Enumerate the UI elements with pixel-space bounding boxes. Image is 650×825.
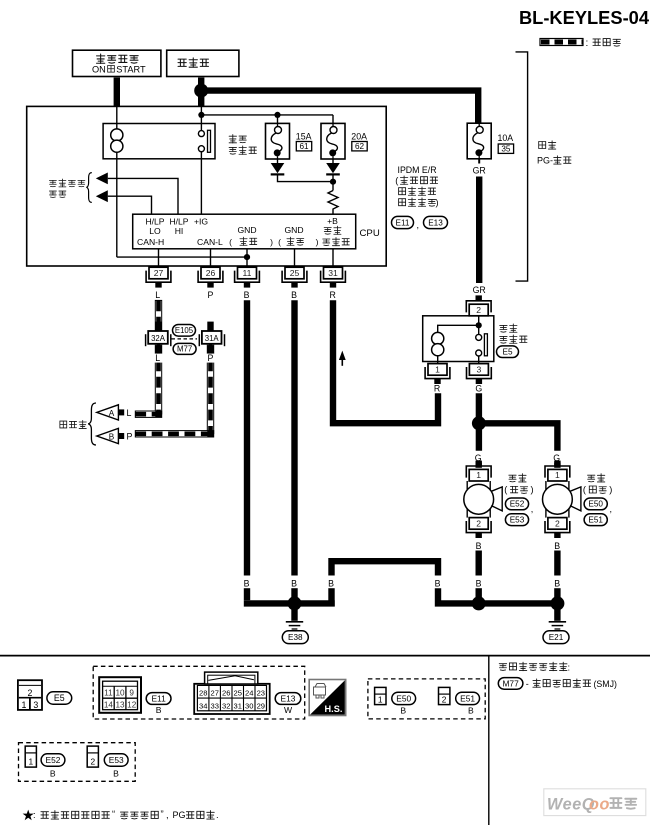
horn relay contact bar [484,334,487,356]
wire B pin 11 (thick) [244,300,250,575]
connector 31A [199,331,224,346]
svg-text:B: B [554,541,560,551]
oval M77 legend ref [498,678,523,690]
svg-text:L: L [127,408,132,418]
svg-text:25: 25 [234,689,242,698]
separator line above legend [0,655,650,657]
battery box (xu dian chi) [167,50,239,76]
arrow to front headlamp system (upper) [96,173,108,185]
connector E5 face [18,680,42,710]
svg-text:(: ( [278,237,281,247]
svg-text:B: B [291,290,297,300]
svg-text:15A: 15A [296,131,312,141]
svg-text:12: 12 [127,701,137,710]
label horn high (la ba gao yin) [509,474,526,482]
svg-text:WeeQ: WeeQ [547,796,595,814]
wire battery junction down into IPDM (thick) [198,91,204,107]
label see PG power (can jian PG dian yuan) [539,141,556,149]
svg-text:2: 2 [442,695,447,705]
pin 2 horn high [466,518,491,538]
svg-text:): ) [531,485,534,495]
svg-text:13: 13 [115,701,125,710]
label to front headlamp system (zhi qian da deng xi tong) [49,179,85,187]
svg-text:B: B [400,705,406,715]
svg-text:1: 1 [435,365,440,375]
wire crossover bridge (thick) [332,561,439,575]
svg-text:): ) [270,237,273,247]
svg-text:B: B [328,578,334,588]
oval E51 ref [584,514,607,526]
wire GND power stub [246,249,248,268]
svg-text:GR: GR [473,285,486,295]
oval E52 ref [505,498,528,510]
wire battery feed to 10A fuse (thick) [205,91,478,123]
svg-text:61: 61 [299,142,309,151]
svg-text:HI: HI [175,226,184,236]
horn low body [543,481,581,518]
corner patch L data wire [155,411,161,417]
svg-text:31A: 31A [205,334,220,343]
brace previous page group [88,403,96,445]
svg-text:1: 1 [476,470,481,480]
pin 1 horn low [545,461,570,481]
svg-text:2: 2 [27,688,32,698]
svg-text:B: B [244,290,250,300]
wire crossover lower to E21 rail (thick) [438,588,557,603]
svg-text:R: R [434,384,440,394]
label previous page (shang yi ye) [60,420,86,428]
wire fuse feed rail horizontal [201,114,333,116]
svg-text:IPDM E/R: IPDM E/R [398,165,437,175]
svg-text:E5: E5 [502,347,512,356]
svg-text:P: P [208,290,214,300]
node E21 ground splice [550,596,564,610]
svg-text:(: ( [229,237,232,247]
wire G relay pin3 down (thick) [476,393,482,451]
svg-text:24: 24 [245,689,253,698]
svg-text:L: L [155,290,160,300]
svg-text:oo: oo [589,796,610,814]
dashed group box E50/E51 [368,679,485,719]
wire CAN-H stub [158,249,160,268]
svg-text:START: START [116,65,146,75]
svg-text:P: P [208,353,214,363]
svg-text:CAN-L: CAN-L [197,237,223,247]
svg-text:11: 11 [243,268,252,278]
svg-text:9: 9 [129,689,134,698]
svg-text:3: 3 [33,700,38,710]
svg-text:2: 2 [476,305,481,315]
wire R pin31 to horn relay pin1 (thick) [333,300,438,423]
svg-text:B: B [156,705,162,715]
wire horn relay contact to pin 3 [478,356,480,364]
wire 20A fuse to diode [332,159,334,163]
wire diode D2 to resistor junction [332,176,334,191]
svg-text:B: B [554,578,560,588]
wire ignition switch lead into relay coil [116,106,118,129]
svg-text:62: 62 [355,142,365,151]
pin 27 CAN-H [146,267,171,287]
horn relay coil [432,332,444,344]
svg-text:28: 28 [199,689,207,698]
svg-text:”: ” [161,808,164,819]
wire horn relay coil link [438,325,479,332]
ignition relay coil [111,129,123,141]
svg-text:E21: E21 [549,633,564,642]
svg-text:E51: E51 [460,693,475,703]
svg-text:20A: 20A [351,131,367,141]
svg-text:B: B [476,541,482,551]
label 62 box [352,142,367,152]
svg-text:.: . [216,809,219,820]
svg-text:,: , [531,504,534,514]
svg-text:3: 3 [477,365,482,375]
ignition switch box ON/START [73,50,161,76]
fuse 15A no.61 [266,123,290,159]
svg-text:+B: +B [327,216,338,226]
data wire P 31A to page arrow B [207,344,213,434]
oval E5 ref [497,346,519,358]
wire B high horn upper segment (thick) [476,551,482,576]
svg-text:“: “ [112,808,115,819]
oval E53 ref [505,514,528,526]
wire headlamp upper to H/LP HI pin [108,178,178,214]
diode D1 under 15A fuse [271,163,285,176]
watermark weiku characters [610,798,636,809]
svg-text:E11: E11 [396,218,410,227]
node horn relay coil junction [476,322,482,328]
svg-text:(SMJ): (SMJ) [594,679,618,689]
svg-text:CPU: CPU [360,228,380,239]
bracket see PG-power section [516,52,528,281]
svg-text:23: 23 [257,689,265,698]
label see following content (qing can jian xia lie nei rong) [499,662,567,671]
data wire L pin27 to 32A [155,300,161,330]
oval E11 ref [392,216,414,228]
wire crossover lower stub (thick) [328,588,334,606]
ground symbol E21 [549,622,566,629]
svg-text:A: A [109,409,115,418]
oval M77 ref [173,343,196,354]
wire ground rail horizontal (coil to GND pin) [117,256,247,258]
svg-text::: : [33,809,36,820]
svg-text:-: - [526,679,529,689]
svg-text:,: , [610,504,613,514]
label horn low (la ba di yin) [588,474,605,482]
svg-text:BL-KEYLES-04: BL-KEYLES-04 [519,7,650,28]
watermark WeeQoo [544,789,646,816]
node GND junction [244,254,250,260]
svg-text:1: 1 [28,757,33,767]
pin 2 horn low [545,518,570,538]
svg-text:26: 26 [206,268,216,278]
svg-text:1: 1 [378,695,383,705]
dashed SMJ separator [172,338,198,340]
svg-text:R: R [330,290,336,300]
legend data-line sample [540,39,583,46]
pin 11 GND power [235,267,260,287]
svg-text:G: G [475,384,482,394]
oval E52 legend ref [41,754,65,766]
pin 26 CAN-L [198,267,223,287]
arrow direction marker on R wire [339,351,346,360]
ignition relay contact circles [198,131,204,137]
label 35 box [498,144,513,154]
oval E51 legend ref [456,692,480,704]
horn relay contact circles [476,334,482,340]
connector E11 face [99,677,141,713]
label horn relay (la ba ji dian qi) [500,324,517,332]
svg-text:30: 30 [245,701,253,710]
svg-text:E105: E105 [175,326,194,335]
wire horn relay coil to pin 1 [437,356,439,364]
wire E21 ground stub [554,603,560,620]
svg-text:E51: E51 [588,515,603,524]
node battery junction [194,84,208,98]
H.S. harness icon [309,680,346,716]
svg-text:14: 14 [104,701,114,710]
oval E13 ref [424,216,448,228]
divider vertical legend [488,656,490,825]
svg-text:33: 33 [210,701,218,710]
svg-text:10: 10 [115,689,125,698]
svg-text:ON: ON [92,65,106,75]
svg-text:H.S.: H.S. [325,704,343,714]
pin 3 horn relay [467,364,492,384]
horn relay box [423,316,494,362]
wire relay coil to ground rail [116,152,118,257]
wire headlamp lower to H/LP LO pin [108,196,152,214]
svg-text:,: , [166,809,169,820]
svg-text:27: 27 [154,268,164,278]
CPU box inside IPDM [133,214,356,249]
svg-text:26: 26 [222,689,230,698]
oval E53 legend ref [104,754,128,766]
svg-text:11: 11 [104,689,113,698]
label battery text [178,58,208,67]
svg-text:GND: GND [284,225,303,235]
svg-text:B: B [468,705,474,715]
svg-text:PG-: PG- [537,155,553,165]
svg-text:LO: LO [149,226,161,236]
svg-text:GR: GR [473,166,486,176]
connector E13 face [194,672,270,714]
wire stub to 20A fuse [332,115,334,124]
svg-text:,: , [417,220,420,230]
wire B pin25 lower (thick) [291,588,297,600]
relay ignition (dian huo ji dian qi) box [103,124,215,159]
wire battery to junction (thick) [198,78,204,91]
arrow A to previous page [97,405,124,420]
wire ignition switch to IPDM (thick) [114,78,120,108]
svg-text:B: B [476,578,482,588]
svg-text:B: B [291,578,297,588]
pin 1 horn relay [425,364,450,384]
brace headlamp group [86,173,92,203]
svg-text:10A: 10A [498,133,514,143]
terminal 1 E50 [375,687,386,704]
wire G stub low horn [554,463,560,468]
svg-text:E53: E53 [510,515,525,524]
pin 1 horn high [466,461,491,481]
svg-text:1: 1 [22,700,27,710]
oval E5 legend ref [47,692,72,704]
arrow to front headlamp system (lower) [96,190,108,202]
data wire L 32A to page arrow A [155,344,161,414]
svg-text:W: W [284,705,293,715]
wire stub to 15A fuse [277,115,279,124]
dashed group box E11/E13 [93,666,305,719]
svg-text:E38: E38 [288,633,303,642]
svg-text:E11: E11 [151,693,166,703]
wire B low horn to splice (thick) [554,588,560,601]
wire B low horn upper segment (thick) [554,551,560,576]
horn high body [464,481,502,518]
svg-text:B: B [435,578,441,588]
node G splice [472,416,486,430]
svg-text:35: 35 [501,145,511,154]
ignition relay contact bar [208,130,211,152]
svg-text:+IG: +IG [194,217,208,227]
svg-text:): ) [609,485,612,495]
wire 15A fuse to diode [277,159,279,163]
svg-text:1: 1 [555,470,560,480]
svg-text:B: B [50,769,56,779]
connector 32A [146,331,171,346]
node diode junction [330,179,336,185]
svg-text:29: 29 [257,701,265,710]
ground symbol E38 [286,622,303,629]
svg-text:27: 27 [210,689,218,698]
svg-text:E50: E50 [396,693,411,703]
svg-text:2: 2 [555,519,560,529]
node E38 ground splice [288,596,302,610]
fuse 10A no.35 [467,123,491,159]
wire G splice to low horn branch (thick) [482,423,557,451]
corner patch P data wire [207,431,213,437]
terminal 2 E53 [87,746,98,767]
svg-text:): ) [316,237,319,247]
dashed group box E52/E53 [19,743,136,782]
label ignition relay (dian huo / ji dian qi) [229,135,246,143]
svg-text:E52: E52 [510,500,525,509]
svg-text:(: ( [583,485,586,495]
label 61 box [296,142,311,152]
svg-text:2: 2 [90,757,95,767]
wire GND signal stub [294,249,296,268]
svg-text:GND: GND [237,225,256,235]
pin 31 horn relay feed [321,267,346,287]
svg-text:32: 32 [222,701,230,710]
svg-text:P: P [127,431,133,441]
arrow B to previous page [97,428,124,443]
oval E50 ref [584,498,607,510]
pin 2 horn relay [466,295,491,315]
svg-text:E52: E52 [46,755,61,765]
label ignition switch (dian huo kai guan) [97,54,139,63]
wire relay contact to +IG pin [200,152,202,215]
oval E105 ref [173,325,196,337]
wire horn relay internal top [478,316,480,335]
node relay contact feed junction [198,112,204,118]
svg-text:L: L [155,353,160,363]
svg-text:25: 25 [290,268,300,278]
svg-text:32A: 32A [151,334,166,343]
oval E11 legend ref [146,693,171,705]
node high horn ground splice [472,596,486,610]
terminal 2 E51 [439,687,450,704]
wire G stub high horn [476,463,482,468]
oval E13 legend ref [275,693,301,705]
svg-text:(: ( [395,176,398,186]
terminal 1 E52 [25,746,36,767]
svg-text:E13: E13 [281,693,296,703]
fuse 20A no.62 [321,123,345,159]
wire diode D1 to junction [278,176,334,182]
svg-text:B: B [109,432,115,441]
svg-text:E5: E5 [54,693,65,703]
wire E38 splice rail (thick) [244,600,335,606]
svg-text::: : [568,663,571,673]
svg-text:): ) [436,198,439,208]
svg-text:M77: M77 [502,678,519,688]
svg-text::: : [586,38,589,49]
wire B pin11 lower (thick) [244,588,250,600]
oval E21 ref [543,631,569,644]
svg-text:2: 2 [476,519,481,529]
svg-text:B: B [244,578,250,588]
svg-text:E13: E13 [428,218,443,227]
resistor in +B feed [328,191,338,215]
svg-text:M77: M77 [177,345,192,354]
oval E38 ref [282,631,308,644]
footnote star marker [23,810,34,821]
svg-text:B: B [113,769,119,779]
svg-text:31: 31 [234,701,242,710]
wire 10A fuse to horn relay pin 2 (thick) [478,159,480,164]
wire B pin 25 (thick) [291,300,297,575]
svg-text:34: 34 [199,701,207,710]
pin 25 GND signal [282,267,307,287]
IPDM E/R module box [27,106,387,266]
node 15A fuse branch [274,112,280,118]
svg-text:E50: E50 [588,500,603,509]
oval E50 legend ref [392,692,416,704]
svg-text:CAN-H: CAN-H [137,237,164,247]
wire E38 ground stub [291,603,297,620]
wire B high horn to splice (thick) [476,588,482,601]
svg-text:(: ( [504,485,507,495]
wire CAN-L stub [210,249,212,268]
diode D2 under 20A fuse [326,163,340,176]
wire battery stub to relay contact [200,106,202,130]
wire +B stub [332,249,334,268]
svg-text:E53: E53 [109,755,124,765]
svg-text:31: 31 [328,268,338,278]
svg-text:PG: PG [173,810,186,820]
